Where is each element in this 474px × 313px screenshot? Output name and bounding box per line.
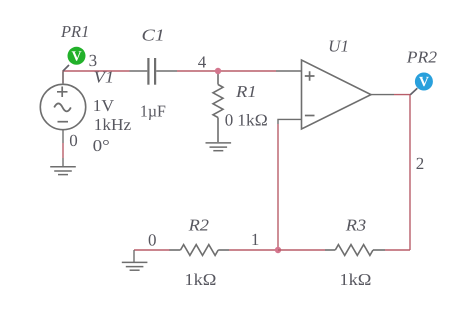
svg-text:0: 0 bbox=[225, 110, 234, 129]
svg-text:1µF: 1µF bbox=[140, 101, 166, 120]
svg-text:1kΩ: 1kΩ bbox=[339, 270, 371, 289]
resistor R1 bbox=[213, 72, 223, 142]
wire bbox=[62, 72, 64, 84]
wire net 1 (R2 to junction 1) bbox=[229, 249, 278, 251]
svg-text:V: V bbox=[419, 75, 429, 90]
wire net 1 (feedback, - input down to node 1) bbox=[277, 124, 279, 250]
resistor R3 bbox=[325, 245, 385, 256]
wire bbox=[133, 250, 135, 263]
svg-text:V: V bbox=[71, 50, 81, 65]
junction node 4 bbox=[215, 68, 221, 74]
wire net 2 (output to PR2 corner and down) bbox=[394, 95, 410, 250]
wire net 0 (bottom left, ground to R2) bbox=[134, 249, 170, 251]
svg-text:1kΩ: 1kΩ bbox=[184, 270, 216, 289]
svg-text:2: 2 bbox=[416, 154, 425, 173]
svg-text:1: 1 bbox=[251, 230, 260, 249]
svg-text:R3: R3 bbox=[345, 215, 367, 234]
probe PR2 pointer bbox=[410, 88, 417, 94]
ground (below R1) bbox=[206, 143, 232, 151]
resistor R2 bbox=[170, 245, 230, 256]
op-amp U1 bbox=[276, 60, 394, 129]
svg-text:C1: C1 bbox=[142, 25, 165, 44]
op-amp output pin bbox=[371, 94, 394, 96]
svg-text:4: 4 bbox=[198, 53, 207, 72]
junction node 1 bbox=[275, 247, 281, 253]
svg-text:V1: V1 bbox=[94, 68, 115, 87]
probe PR1 bbox=[68, 47, 86, 65]
svg-text:U1: U1 bbox=[328, 36, 349, 55]
ground (below V1) bbox=[50, 167, 76, 175]
voltage source V1 bbox=[40, 84, 85, 129]
op-amp - input pin bbox=[278, 119, 302, 124]
wire bbox=[62, 143, 64, 158]
probe PR1 pointer bbox=[63, 65, 69, 71]
svg-text:0: 0 bbox=[69, 131, 78, 150]
svg-text:1kHz: 1kHz bbox=[94, 115, 131, 134]
svg-text:R1: R1 bbox=[235, 82, 257, 101]
capacitor C1 bbox=[130, 58, 178, 85]
wire bbox=[62, 158, 64, 167]
ground (bottom left) bbox=[122, 262, 148, 270]
svg-text:0°: 0° bbox=[93, 136, 110, 155]
wire net 2 (R3 to output corner) bbox=[385, 249, 410, 251]
svg-text:PR2: PR2 bbox=[406, 48, 437, 67]
wire net 0 (source bottom to ground) bbox=[62, 130, 64, 143]
svg-text:PR1: PR1 bbox=[60, 22, 89, 41]
svg-text:0: 0 bbox=[148, 231, 157, 250]
svg-text:R2: R2 bbox=[187, 215, 209, 234]
svg-text:1kΩ: 1kΩ bbox=[237, 111, 268, 130]
wire net 4 (C1 to junction to op-amp +) bbox=[177, 70, 276, 72]
probe PR2 bbox=[415, 73, 433, 91]
wire net 3 (source top to C1 left) bbox=[63, 71, 130, 83]
svg-text:1V: 1V bbox=[93, 96, 115, 115]
wire net 1 (junction 1 to R3) bbox=[278, 249, 325, 251]
op-amp + input pin bbox=[276, 70, 302, 72]
